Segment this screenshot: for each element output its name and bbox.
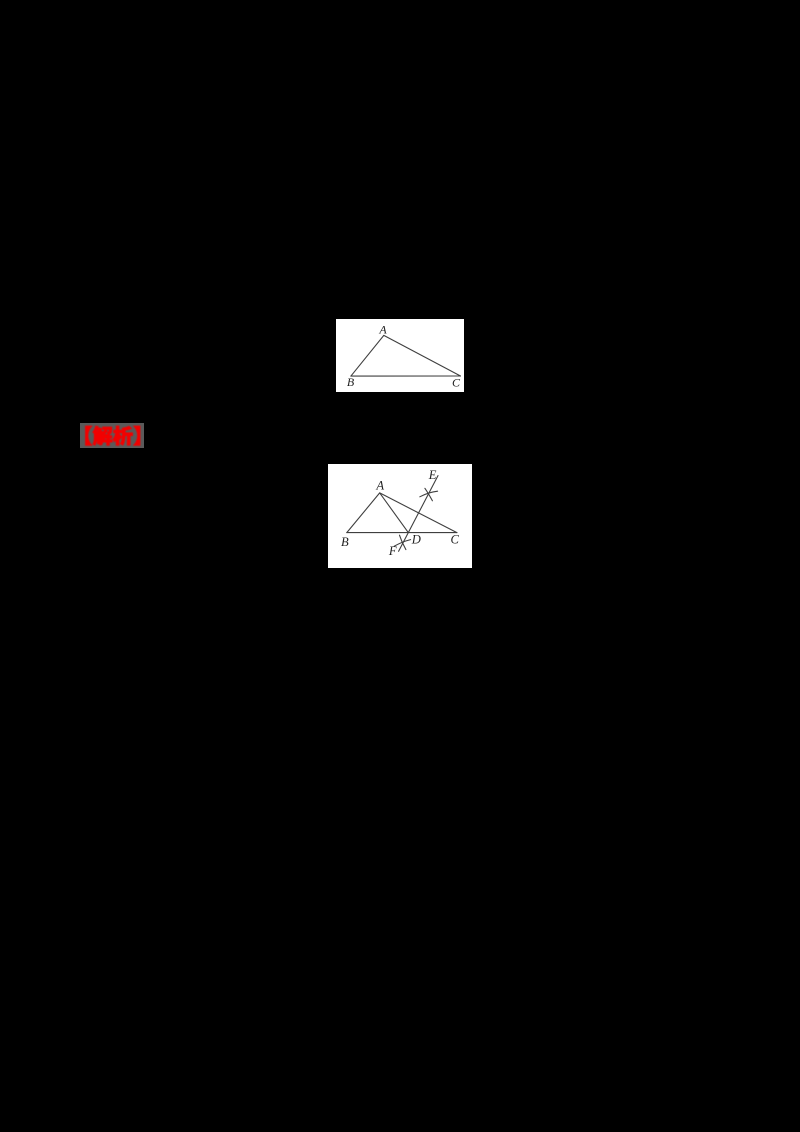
arc mark upper E tick 2 — [419, 491, 437, 497]
svg-text:B: B — [346, 375, 354, 389]
arc mark upper E tick 1 — [425, 488, 432, 500]
svg-text:A: A — [378, 323, 387, 337]
glyph xi 析 — [113, 426, 133, 445]
wire side CA — [383, 336, 460, 377]
svg-text:E: E — [427, 468, 436, 482]
arc mark lower F tick 1 — [399, 535, 405, 549]
svg-text:A: A — [375, 478, 384, 492]
wire segment AD — [379, 493, 408, 533]
wire side AB — [350, 336, 383, 377]
arc mark lower F tick 2 — [394, 539, 410, 546]
glyph right bracket — [133, 426, 139, 445]
glyph jie 解 — [92, 426, 111, 445]
svg-text:D: D — [410, 532, 420, 546]
wire side AB — [346, 493, 379, 533]
figure panel 1: problem triangle ABC — [336, 319, 464, 391]
svg-text:B: B — [341, 535, 349, 549]
svg-text:C: C — [451, 376, 460, 390]
wire side BC — [346, 531, 456, 533]
wire perpendicular bisector EF — [398, 475, 437, 551]
svg-text:F: F — [388, 543, 397, 557]
wire side BC — [350, 375, 460, 377]
wire side CA — [379, 493, 456, 533]
glyph left bracket — [85, 426, 91, 445]
figure panel 2: construction with perpendicular bisector — [328, 464, 472, 568]
svg-text:C: C — [450, 532, 459, 546]
red tag block 【解析】 — [80, 423, 144, 448]
